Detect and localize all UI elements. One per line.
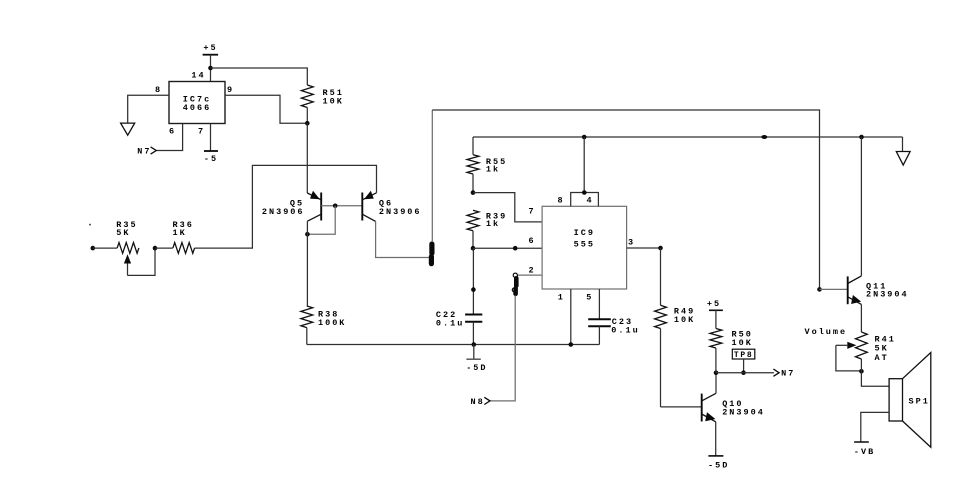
wire C23 to bus xyxy=(598,326,600,344)
svg-text:2: 2 xyxy=(528,265,535,275)
wire 555 pin 3 to R49 xyxy=(627,247,661,249)
capacitor C22 0.1u xyxy=(436,310,482,329)
pin 6 label xyxy=(169,126,176,136)
svg-text:-5: -5 xyxy=(204,154,218,164)
transistor Q11 2N3904 xyxy=(848,276,909,305)
svg-text:4: 4 xyxy=(586,195,593,205)
junction dot TP8 xyxy=(741,370,746,375)
pin 2 label (555) xyxy=(528,265,535,275)
svg-text:7: 7 xyxy=(528,207,535,217)
pin 5 label (555) xyxy=(586,292,593,302)
wire bottom bus R38 to C23 xyxy=(307,344,600,346)
svg-text:4066: 4066 xyxy=(183,103,211,113)
wire 555 pin 5 to C23 xyxy=(598,289,600,319)
pin 8 label xyxy=(155,85,162,95)
resistor R49 10K xyxy=(655,248,696,407)
resistor R39 1k xyxy=(467,210,507,248)
svg-text:1K: 1K xyxy=(173,228,187,238)
svg-text:6: 6 xyxy=(528,236,535,246)
svg-text:5K: 5K xyxy=(116,228,130,238)
svg-text:14: 14 xyxy=(191,70,205,80)
transistor Q5 2N3906 xyxy=(262,191,321,221)
svg-text:N7: N7 xyxy=(137,147,151,157)
wire +5 node to R51 top xyxy=(211,68,308,85)
wire connector up to top rail xyxy=(431,110,433,242)
wire Q10 collector up xyxy=(715,373,717,394)
power +5 supply (IC7c) xyxy=(203,43,219,55)
node N8 (input arrow) xyxy=(471,397,491,407)
speaker SP1 xyxy=(889,353,931,448)
wire to Q11 base xyxy=(820,288,848,290)
junction dot rail / Q11 collector xyxy=(859,135,864,140)
junction dot C22 / bus / -5D xyxy=(472,342,477,347)
op IC7c 4066 analog switch U IC7 xyxy=(169,82,225,124)
wire IC7c pin 9 to R51 bottom xyxy=(225,95,305,123)
power +5 supply (R50) xyxy=(707,299,723,310)
power -5D supply (Q10) xyxy=(708,456,729,471)
wiper arrow R41 xyxy=(836,342,857,349)
wire Q11 emitter to R41 xyxy=(860,304,862,332)
svg-text:N8: N8 xyxy=(471,397,485,407)
svg-text:-5D: -5D xyxy=(708,460,729,470)
wire R35 wiper loop xyxy=(128,248,156,275)
wire R41 to speaker xyxy=(861,359,889,386)
transistor Q6 2N3906 xyxy=(362,191,421,222)
junction dot pin 3 xyxy=(658,246,663,251)
wire to 555 pin 7 xyxy=(473,193,542,222)
transistor Q10 2N3904 xyxy=(702,393,765,422)
svg-text:6: 6 xyxy=(169,126,176,136)
pin 7 label (555) xyxy=(528,207,535,217)
power -5 supply xyxy=(204,151,218,164)
wire Q6 collector to connector xyxy=(376,221,429,257)
pin 4 label (555) xyxy=(586,195,593,205)
svg-text:8: 8 xyxy=(155,85,162,95)
wire R41 wiper loop xyxy=(836,345,862,371)
junction dot R35/R36 xyxy=(153,246,158,251)
svg-text:AT: AT xyxy=(875,353,889,363)
pin 3 label (555) xyxy=(628,238,635,248)
junction dot Q10 collector node xyxy=(714,370,719,375)
wire Q5 base to Q6 base xyxy=(321,205,362,207)
label Volume xyxy=(805,327,848,337)
wire to C22 xyxy=(472,248,474,314)
capacitor C23 0.1u xyxy=(588,317,640,335)
junction dot Q5 collector xyxy=(305,232,310,237)
test point TP8 xyxy=(732,349,755,373)
node N7 (output arrow) xyxy=(773,369,795,379)
wire IC7c pin 6 to N7 xyxy=(157,124,183,151)
resistor R36 1K xyxy=(173,220,195,253)
svg-text:+5: +5 xyxy=(203,43,217,53)
wire collector node to N7 xyxy=(716,372,774,374)
wire R51 bottom to Q5 emitter xyxy=(306,123,308,193)
wire base to collector tie (Q5) xyxy=(307,206,335,234)
junction dot +5 node xyxy=(208,66,213,71)
power -VB supply xyxy=(854,442,875,457)
op-amp timer IC9 555 xyxy=(542,206,627,289)
junction dot R39 bottom xyxy=(471,246,476,251)
pin 9 label xyxy=(227,85,234,95)
wire IC7c pin 8 to ground xyxy=(128,95,169,123)
svg-text:9: 9 xyxy=(227,85,234,95)
svg-text:2N3906: 2N3906 xyxy=(262,207,305,217)
pin 14 label xyxy=(191,70,205,80)
svg-text:0.1u: 0.1u xyxy=(436,318,464,328)
svg-text:N7: N7 xyxy=(781,369,795,379)
resistor R38 100K xyxy=(301,306,347,345)
ground symbol (right) xyxy=(896,137,910,165)
svg-text:1: 1 xyxy=(558,293,565,303)
wire 555 pin 1 to bus xyxy=(570,289,572,345)
connector J (pin 2 / N8) xyxy=(512,273,517,294)
terminal dot Q11 base wire xyxy=(817,287,822,292)
svg-text:2N3904: 2N3904 xyxy=(866,289,909,299)
junction dot on C22 wire xyxy=(471,287,476,292)
wire input to R35 xyxy=(93,247,117,249)
svg-text:0.1u: 0.1u xyxy=(611,325,639,335)
pin 8 label (555) xyxy=(557,195,564,205)
resistor R50 10K xyxy=(710,310,753,372)
pin 7 label xyxy=(198,126,205,136)
junction dot pin 1 / bus xyxy=(569,342,574,347)
svg-text:8: 8 xyxy=(557,195,564,205)
junction dot base node xyxy=(333,204,338,209)
svg-text:10K: 10K xyxy=(674,315,695,325)
wire Q5 collector to R38 xyxy=(306,221,308,306)
svg-text:5: 5 xyxy=(586,292,593,302)
resistor R51 10K xyxy=(301,85,343,123)
wire R36 to Q6 emitter xyxy=(195,165,377,248)
potentiometer R35 5K xyxy=(116,220,139,253)
junction dot R55/R39 xyxy=(471,190,476,195)
wire N8 net xyxy=(490,296,515,401)
svg-text:TP8: TP8 xyxy=(734,351,754,360)
svg-text:2N3906: 2N3906 xyxy=(379,207,422,217)
power -5D supply (C22) xyxy=(466,345,487,374)
ground symbol (IC7c pin 8) xyxy=(121,123,135,135)
svg-text:7: 7 xyxy=(198,126,205,136)
wire IC7c pin 7 to -5 xyxy=(210,124,212,152)
svg-text:SP1: SP1 xyxy=(909,396,930,406)
connector J (Q6 collector) xyxy=(429,244,435,264)
junction dot R41 bottom xyxy=(859,369,864,374)
wire to R36 xyxy=(155,247,173,249)
svg-text:+5: +5 xyxy=(707,299,721,309)
svg-text:-VB: -VB xyxy=(854,447,875,457)
wire C22 to bus xyxy=(472,322,474,345)
svg-text:10K: 10K xyxy=(323,96,344,106)
wire speaker return xyxy=(861,412,889,442)
svg-text:2N3904: 2N3904 xyxy=(722,407,765,417)
node input terminal dot xyxy=(89,224,95,251)
potentiometer R41 5K AT xyxy=(856,332,896,363)
svg-text:555: 555 xyxy=(574,240,595,250)
junction dot rail small xyxy=(761,135,767,139)
wire Q10 emitter down xyxy=(715,422,717,456)
svg-text:1k: 1k xyxy=(486,219,500,229)
wire Q11 collector to rail xyxy=(860,137,862,276)
wire top rail to Q11 base xyxy=(432,110,819,289)
node N7 (input arrow) xyxy=(137,147,156,157)
wire 555 pins 8+4 to rail xyxy=(571,137,599,206)
wire ground rail xyxy=(473,136,903,138)
junction dot rail / 555 supply xyxy=(582,135,587,140)
svg-text:IC9: IC9 xyxy=(574,228,595,238)
svg-text:1k: 1k xyxy=(486,165,500,175)
wire to 555 pin 6 xyxy=(473,247,542,249)
wiper arrow R35 xyxy=(124,254,131,275)
svg-text:Volume: Volume xyxy=(805,327,848,337)
resistor R55 1k xyxy=(467,137,507,193)
svg-text:100K: 100K xyxy=(318,318,346,328)
junction dot R51 bottom / pin 9 node xyxy=(305,121,310,126)
svg-text:3: 3 xyxy=(628,238,635,248)
wire R49 to Q10 base xyxy=(661,406,702,408)
svg-text:10K: 10K xyxy=(732,338,753,348)
pin 6 label (555) xyxy=(528,236,535,246)
svg-text:-5D: -5D xyxy=(466,363,487,373)
wire 555 pin 2 to connector xyxy=(517,274,542,276)
pin 1 label (555) xyxy=(558,293,565,303)
wire +5 to IC7c pin 14 xyxy=(210,55,212,82)
junction dot pin 6 wire xyxy=(513,246,518,251)
